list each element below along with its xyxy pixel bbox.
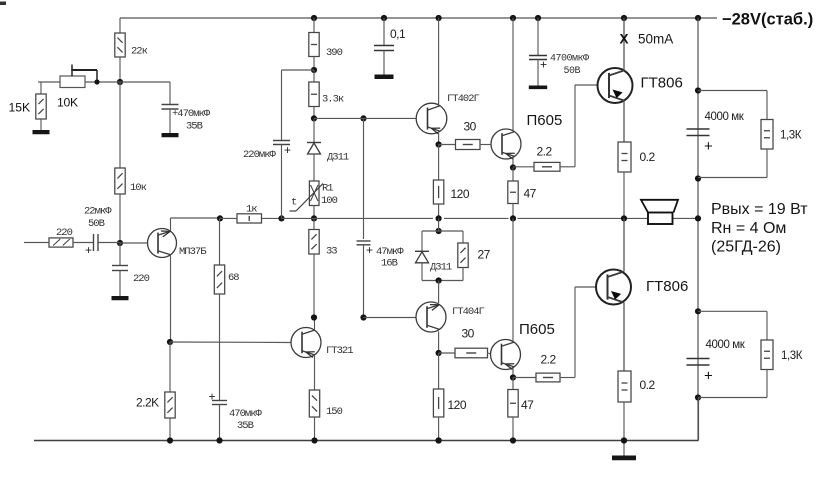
svg-text:35В: 35В	[237, 420, 254, 432]
svg-text:2.2: 2.2	[541, 352, 557, 366]
svg-text:t: t	[291, 196, 297, 208]
svg-text:1,3К: 1,3К	[781, 350, 803, 362]
svg-text:+: +	[704, 367, 713, 384]
svg-text:1к: 1к	[246, 203, 257, 215]
svg-text:35В: 35В	[186, 120, 203, 132]
svg-text:22к: 22к	[131, 45, 148, 57]
svg-text:3.3к: 3.3к	[322, 93, 344, 105]
svg-text:120: 120	[451, 187, 470, 201]
svg-text:47мкФ: 47мкФ	[376, 246, 404, 258]
svg-text:Rн = 4 Ом: Rн = 4 Ом	[711, 220, 786, 237]
svg-text:2.2K: 2.2K	[136, 395, 159, 409]
svg-text:390: 390	[326, 47, 343, 59]
svg-text:4000 мк: 4000 мк	[705, 111, 745, 123]
svg-text:R1: R1	[322, 182, 333, 194]
svg-text:0.2: 0.2	[640, 378, 656, 392]
svg-text:50mA: 50mA	[638, 31, 673, 46]
svg-text:+: +	[85, 243, 92, 257]
svg-text:Д311: Д311	[430, 261, 452, 273]
svg-text:68: 68	[228, 272, 239, 284]
svg-text:−28V(стаб.): −28V(стаб.)	[722, 11, 813, 29]
svg-text:150: 150	[326, 406, 343, 418]
svg-text:100: 100	[321, 195, 338, 207]
svg-text:+: +	[284, 143, 291, 157]
svg-text:16В: 16В	[381, 257, 398, 269]
svg-text:10K: 10K	[57, 95, 78, 109]
svg-text:30: 30	[464, 119, 477, 133]
svg-text:X: X	[620, 31, 629, 46]
svg-text:47: 47	[524, 186, 537, 200]
svg-text:27: 27	[478, 247, 491, 261]
svg-text:Рвых = 19 Вт: Рвых = 19 Вт	[711, 201, 808, 218]
svg-text:30: 30	[462, 326, 475, 340]
svg-text:220мкФ: 220мкФ	[243, 149, 277, 161]
svg-text:+: +	[540, 57, 547, 71]
svg-text:4000 мк: 4000 мк	[706, 339, 746, 351]
svg-text:15K: 15K	[9, 100, 31, 114]
svg-text:П605: П605	[519, 321, 555, 338]
svg-text:Д311: Д311	[327, 151, 349, 163]
svg-text:220: 220	[133, 273, 150, 285]
svg-text:50В: 50В	[88, 218, 105, 230]
svg-text:+470мкФ: +470мкФ	[172, 108, 211, 120]
svg-text:+: +	[209, 389, 216, 403]
svg-text:ГТ806: ГТ806	[641, 74, 683, 91]
svg-text:(25ГД-26): (25ГД-26)	[711, 238, 781, 255]
svg-text:ГТ806: ГТ806	[646, 278, 688, 295]
svg-text:П605: П605	[527, 112, 563, 129]
svg-text:0,1: 0,1	[390, 27, 406, 41]
svg-text:+: +	[366, 243, 373, 257]
svg-text:47: 47	[521, 398, 534, 412]
svg-text:10к: 10к	[130, 182, 147, 194]
svg-text:ГТ402Г: ГТ402Г	[447, 93, 480, 105]
svg-text:1,3К: 1,3К	[780, 130, 802, 142]
svg-text:4700мкФ: 4700мкФ	[550, 54, 589, 65]
svg-text:470мкФ: 470мкФ	[229, 408, 263, 420]
svg-text:33: 33	[326, 245, 337, 257]
svg-text:ГТ321: ГТ321	[326, 345, 353, 357]
svg-text:0.2: 0.2	[640, 150, 656, 164]
svg-text:220: 220	[56, 227, 73, 239]
svg-text:МП37Б: МП37Б	[179, 246, 207, 258]
svg-text:2.2: 2.2	[537, 144, 553, 158]
svg-text:50В: 50В	[564, 66, 581, 77]
svg-text:+: +	[704, 138, 713, 155]
svg-text:120: 120	[448, 398, 467, 412]
svg-text:22мкФ: 22мкФ	[84, 205, 112, 217]
svg-text:ГТ404Г: ГТ404Г	[452, 306, 485, 318]
